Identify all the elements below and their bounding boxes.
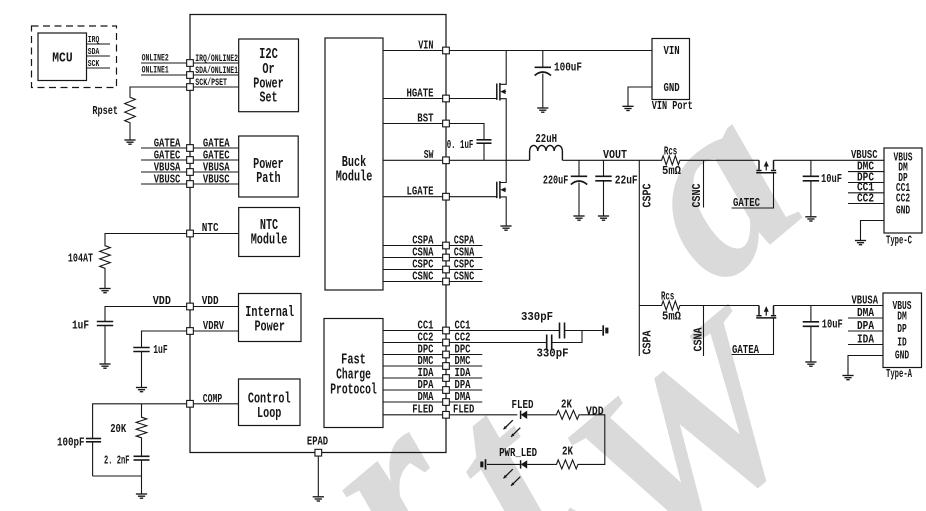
wire i2c y87 — [194, 86, 239, 88]
svg-text:Power: Power — [254, 318, 285, 335]
ground comp — [136, 494, 147, 498]
wire vdd-block — [194, 306, 239, 308]
wire DPA stub — [848, 330, 883, 332]
label IDA — [857, 333, 874, 346]
capacitor 330pF CC2 — [547, 335, 552, 351]
wire buck CSNC — [383, 281, 442, 283]
svg-text:330pF: 330pF — [537, 348, 569, 361]
block NTC Module — [239, 208, 300, 257]
wire MCU SDA — [87, 55, 111, 57]
svg-text:22uF: 22uF — [615, 175, 638, 188]
svg-text:2K: 2K — [562, 445, 573, 458]
wire Rpset-gnd — [129, 125, 131, 140]
label DPA out — [455, 379, 471, 392]
wire 100uF-gnd — [542, 74, 544, 109]
pin left y87 — [187, 84, 194, 91]
label DMA out — [455, 391, 471, 404]
text Loop — [257, 405, 281, 422]
diode FLED LED — [521, 411, 528, 419]
ground Q4 — [500, 226, 511, 230]
svg-text:Path: Path — [256, 170, 280, 187]
label SDA — [88, 46, 100, 57]
wire 220uF-gnd — [578, 183, 580, 217]
text DP tc — [898, 171, 908, 185]
svg-text:ONLINE1: ONLINE1 — [142, 65, 169, 77]
pin right IDA — [443, 375, 450, 382]
svg-text:VIN: VIN — [418, 39, 433, 52]
label SCK/PSET — [195, 77, 227, 89]
text Charge — [336, 367, 371, 384]
capacitor 220uF branch — [578, 160, 580, 176]
wire fcp DMA — [383, 401, 442, 403]
label GATEA — [732, 344, 759, 357]
wire fcp DPA — [383, 389, 442, 391]
svg-text:CSPA: CSPA — [641, 330, 654, 354]
block Fast Charge Protocol — [324, 319, 383, 428]
MCU label — [52, 50, 72, 66]
capacitor 100uF branch — [542, 51, 544, 68]
ground 104AT — [99, 289, 110, 293]
capacitor 1uF VDD — [97, 322, 113, 326]
wire buck SW — [383, 159, 442, 161]
capacitor 10uF-C branch — [810, 160, 812, 176]
label DPA — [857, 320, 874, 333]
label DPA fcpin — [418, 379, 434, 392]
IC U1 outline — [190, 15, 446, 453]
pin right CSNC — [443, 278, 450, 285]
wire vdrv-block — [194, 330, 239, 332]
resistor 20K — [136, 415, 147, 440]
wire CC2 right — [552, 331, 583, 343]
wire buck CSNA — [383, 257, 442, 259]
label 104AT — [68, 252, 93, 265]
resistor Rcs2 — [660, 301, 682, 310]
label VDD right — [586, 406, 604, 419]
wire VBUSA start — [639, 305, 660, 307]
pin right LGATE — [443, 193, 450, 200]
capacitor 100pF — [86, 439, 101, 442]
capacitor 2.2nF — [134, 456, 150, 460]
label SCK — [88, 58, 100, 69]
label IRQ — [88, 34, 100, 45]
wire NTC — [105, 234, 186, 244]
text NTC b — [260, 217, 278, 234]
label 2K top — [561, 399, 572, 412]
label CSNC out — [454, 270, 475, 283]
label CC2 tc net — [857, 192, 874, 205]
pin right CSNA — [443, 254, 450, 261]
svg-text:VDD: VDD — [586, 406, 604, 419]
port Type-C box — [884, 148, 922, 233]
MCU dashed box — [32, 26, 117, 88]
label CSPA buckin — [412, 234, 433, 247]
block Power Path — [239, 136, 299, 197]
wire VBUSC left — [141, 183, 186, 185]
svg-text:Protocol: Protocol — [330, 382, 377, 399]
wire TypeA gnd — [848, 356, 883, 376]
svg-text:CSNA: CSNA — [693, 327, 706, 351]
label DMA fcpin — [418, 391, 434, 404]
label 22uH — [535, 133, 557, 146]
wire CSPC stub — [450, 269, 483, 271]
label GATEA left — [154, 137, 181, 150]
svg-text:100pF: 100pF — [57, 436, 85, 449]
svg-text:CSNC: CSNC — [691, 183, 704, 207]
label VBUSA left — [154, 161, 181, 174]
wire fcp CC1 — [383, 330, 442, 332]
pin left y148 — [187, 145, 194, 152]
label VIN buckin — [418, 39, 433, 52]
pin right SW — [443, 157, 450, 164]
svg-text:Module: Module — [336, 169, 373, 186]
label FLED led — [512, 399, 534, 412]
ground 1uF VDD — [99, 364, 110, 368]
pin left y331 — [187, 328, 194, 335]
resistor 2K bottom — [555, 460, 580, 469]
wire after Q2 — [774, 305, 884, 307]
wire FLED net — [450, 414, 518, 416]
text Internal — [245, 304, 294, 321]
svg-text:220uF: 220uF — [543, 175, 568, 188]
wire CSNC stub — [450, 281, 483, 283]
pin right DPA — [443, 387, 450, 394]
terminator CC gnd — [603, 325, 608, 335]
transistor Q1 HGATE — [497, 51, 506, 161]
svg-text:CC2: CC2 — [857, 192, 874, 205]
pin right BST — [443, 120, 450, 127]
svg-text:SW: SW — [424, 149, 434, 162]
capacitor 330pF CC1 — [560, 323, 565, 339]
pin left y306.5 — [187, 303, 194, 310]
pin left y160 — [187, 157, 194, 164]
text VBUS ta — [893, 299, 912, 313]
port VIN Port box — [652, 39, 690, 100]
wire 2.2nF bottom — [141, 460, 143, 494]
diode PWR_LED — [521, 460, 528, 468]
label CSPA out — [454, 234, 475, 247]
svg-text:DMA: DMA — [857, 307, 874, 320]
wire comp-block — [194, 403, 239, 405]
label 5mohm1 — [662, 165, 681, 178]
label VDD in — [202, 295, 219, 308]
wire SCK/PSET net — [130, 87, 186, 95]
wire fcp DMC — [383, 365, 442, 367]
wire after Q3 — [774, 159, 885, 161]
capacitor 10uF-C — [803, 176, 819, 181]
wire 10uFC-gnd — [810, 181, 812, 217]
svg-text:DPA: DPA — [857, 320, 874, 333]
label 100uF — [554, 62, 582, 75]
wire fcp DPC — [383, 354, 442, 356]
label CSPA — [641, 330, 654, 354]
pin right DMA — [443, 399, 450, 406]
label COMP in — [203, 393, 222, 406]
label CC2 out — [455, 331, 471, 344]
svg-text:BST: BST — [417, 112, 433, 125]
wire pp y172 — [194, 171, 239, 173]
label CC2 fcpin — [418, 331, 434, 344]
svg-text:GATEC: GATEC — [733, 197, 760, 210]
label CSNA — [693, 327, 706, 351]
svg-text:Type-C: Type-C — [886, 235, 912, 248]
svg-text:LGATE: LGATE — [407, 186, 434, 199]
label DMC out — [455, 355, 471, 368]
svg-text:330pF: 330pF — [521, 311, 553, 324]
svg-text:ONLINE2: ONLINE2 — [142, 53, 169, 65]
label VOUT — [603, 149, 627, 162]
capacitor 10uF-A branch — [810, 306, 812, 322]
wire VDRV left — [142, 331, 187, 347]
wire DMA stub — [450, 401, 483, 403]
wire SW net — [450, 159, 530, 161]
svg-text:Loop: Loop — [257, 405, 281, 422]
svg-text:1uF: 1uF — [153, 344, 168, 357]
text GND port — [664, 81, 680, 95]
text DM ta — [897, 309, 907, 323]
resistor Rpset — [125, 95, 136, 125]
wire after Rcs1 — [682, 159, 760, 161]
svg-text:Type-A: Type-A — [886, 368, 912, 381]
svg-text:10uF: 10uF — [821, 173, 842, 186]
svg-text:10uF: 10uF — [822, 318, 843, 331]
label 20K — [110, 423, 126, 436]
wire GATEC left — [141, 159, 186, 161]
ground EPAD — [313, 497, 324, 501]
text Buck — [342, 154, 366, 171]
svg-text:MCU: MCU — [52, 50, 72, 66]
wire 22uF-gnd — [603, 181, 605, 216]
wire DPC stub — [450, 354, 483, 356]
inductor 22uH — [530, 145, 563, 160]
label HGATE buckin — [407, 87, 434, 100]
wire pp y184 — [194, 183, 239, 185]
svg-text:DP: DP — [897, 322, 907, 336]
label CSNA buckin — [412, 246, 433, 259]
svg-text:VIN: VIN — [664, 44, 680, 58]
svg-text:2. 2nF: 2. 2nF — [104, 454, 130, 467]
wire EPAD-gnd — [317, 456, 319, 496]
text VBUS tc — [894, 151, 913, 165]
wire 20K-2.2nF — [141, 440, 143, 456]
wire DPA stub — [450, 389, 483, 391]
block I2C Or Power Set — [239, 39, 299, 112]
capacitor 22uF — [595, 176, 611, 181]
label IRQ/ONLINE2 — [195, 53, 238, 65]
ground TypeA — [842, 376, 853, 380]
label 1uF VDD — [72, 319, 89, 332]
wire VBUSA left — [141, 171, 186, 173]
label LGATE buckin — [407, 186, 434, 199]
pin right HGATE — [443, 95, 450, 102]
pin left y75 — [187, 72, 194, 79]
svg-text:1uF: 1uF — [72, 319, 89, 332]
wire IDA stub — [848, 344, 883, 346]
wire buck VIN — [383, 50, 442, 52]
svg-text:GND: GND — [895, 348, 909, 362]
wire fcp CC2 — [383, 342, 442, 344]
label 330pF 2 — [537, 348, 569, 361]
wire led-2K — [527, 414, 555, 416]
svg-text:IDA: IDA — [857, 333, 874, 346]
pin right DPC — [443, 351, 450, 358]
label DPC out — [455, 343, 471, 356]
label 2K bottom — [562, 445, 573, 458]
text Path — [256, 170, 280, 187]
label 1uF VDRV — [153, 344, 168, 357]
wire LGATE net — [450, 196, 497, 198]
text Power — [253, 75, 284, 92]
svg-text:2K: 2K — [561, 399, 572, 412]
text Or — [262, 61, 274, 78]
label FLED fcpin — [412, 404, 433, 417]
wire IDA stub — [450, 377, 483, 379]
svg-text:20K: 20K — [110, 423, 126, 436]
ground VINport — [622, 106, 633, 110]
pin right DMC — [443, 363, 450, 370]
label DPC — [857, 171, 874, 184]
pin left y403.8 — [187, 400, 194, 407]
wire CC2 stub tc — [848, 203, 884, 205]
wire CC1 net — [450, 330, 560, 332]
label 330pF 1 — [521, 311, 553, 324]
arrows FLED — [504, 420, 521, 437]
ground 22uF — [598, 216, 609, 220]
transistor Q4 LGATE — [497, 160, 506, 226]
wire comp branch — [141, 404, 143, 415]
wire CSNA stub — [703, 306, 705, 357]
wire comp bottom — [93, 475, 142, 477]
label GATEC in — [203, 149, 230, 162]
label 5mohm2 — [662, 310, 681, 323]
svg-text:Rcs: Rcs — [664, 146, 677, 159]
pin right CSPA — [443, 242, 450, 249]
label CSPC — [641, 183, 654, 207]
label CSNC buckin — [412, 270, 433, 283]
wire COMP left — [93, 404, 187, 439]
wire ONLINE2 — [141, 62, 186, 64]
pin EPAD — [315, 449, 322, 456]
text Power ip — [254, 318, 285, 335]
label CSNA out — [454, 246, 475, 259]
pin left y233.5 — [187, 230, 194, 237]
text DM tc — [898, 161, 908, 175]
wire 100pF bottom — [92, 442, 94, 476]
svg-text:EPAD: EPAD — [307, 436, 328, 449]
wire ONLINE1 — [141, 74, 186, 76]
svg-text:CSNC: CSNC — [412, 270, 433, 283]
svg-text:100uF: 100uF — [554, 62, 582, 75]
capacitor 10uF-A — [803, 322, 819, 327]
capacitor 22uF branch — [603, 160, 605, 176]
wire BST net — [450, 124, 484, 140]
pin left y172 — [187, 169, 194, 176]
text ID ta — [897, 335, 907, 349]
label Rpset — [92, 105, 118, 118]
pin right CC1 — [443, 327, 450, 334]
wire after Rcs2 — [682, 305, 760, 307]
pin right FLED — [443, 411, 450, 418]
svg-text:Rcs: Rcs — [661, 291, 674, 304]
terminator PWR gnd — [480, 459, 485, 469]
wire 1uF-gnd — [104, 326, 106, 365]
ground 1uF VDRV — [136, 388, 147, 392]
ground 220uF — [573, 216, 584, 220]
wire MCU IRQ — [87, 43, 111, 45]
svg-text:DMA: DMA — [418, 391, 434, 404]
label FLED out — [453, 404, 474, 417]
text Module buck — [336, 169, 373, 186]
wire CSNA stub — [450, 257, 483, 259]
label VDD left — [153, 295, 171, 308]
ground Rpset — [124, 140, 135, 144]
label DMC fcpin — [418, 355, 434, 368]
label VBUSC in — [203, 173, 230, 186]
wire fcp FLED — [383, 414, 442, 416]
label PWR_LED — [499, 447, 537, 460]
text DP ta — [897, 322, 907, 336]
resistor Rcs1 — [660, 156, 682, 165]
svg-text:VIN Port: VIN Port — [652, 99, 693, 113]
label GATEC — [733, 197, 760, 210]
resistor 2K top — [555, 410, 581, 419]
capacitor 220uF — [571, 176, 587, 184]
block Control Loop — [239, 379, 301, 426]
text CC2 tc — [896, 192, 910, 206]
wire pwrled left — [487, 463, 521, 465]
wire buck BST — [383, 123, 442, 125]
label 22uF — [615, 175, 638, 188]
text CC1 tc — [896, 181, 910, 195]
label Type-A — [886, 368, 912, 381]
label 220uF — [543, 175, 568, 188]
label ONLINE2 — [142, 53, 169, 65]
label DMA — [857, 307, 874, 320]
pin right CSPC — [443, 266, 450, 273]
transistor Q3 GATEC — [732, 160, 777, 208]
wire pp y148 — [194, 147, 239, 149]
capacitor 100uF — [535, 67, 551, 75]
wire CC1 right — [565, 330, 602, 332]
svg-text:VDD: VDD — [153, 295, 171, 308]
label CSPC out — [454, 258, 475, 271]
wire 10uFA-gnd — [810, 326, 812, 362]
label CC1 fcpin — [418, 319, 434, 332]
wire 104AT-gnd — [104, 271, 106, 289]
resistor 104AT — [100, 244, 111, 271]
svg-text:VBUSC: VBUSC — [154, 173, 181, 186]
wire DMC stub — [450, 365, 483, 367]
ground 100uF — [537, 108, 548, 112]
label CSNC — [691, 183, 704, 207]
label GATEC left — [154, 149, 181, 162]
wire 2Kb-led — [527, 463, 555, 465]
label VBUSA in — [203, 161, 230, 174]
label IDA out — [455, 367, 471, 380]
text Module ntc — [251, 231, 288, 248]
label GATEA in — [203, 137, 230, 150]
label VBUSA net — [852, 294, 879, 307]
wire i2c y75 — [194, 74, 239, 76]
wire DPC stub — [848, 182, 884, 184]
wire pp y160 — [194, 159, 239, 161]
label BST buckin — [417, 112, 433, 125]
wire MCU SCK — [87, 67, 111, 69]
ground 10uFA — [805, 362, 816, 366]
transistor Q2 GATEA — [732, 306, 777, 355]
label 10uF-C — [821, 173, 842, 186]
label VBUSC net — [851, 149, 878, 162]
label ONLINE1 — [142, 65, 169, 77]
